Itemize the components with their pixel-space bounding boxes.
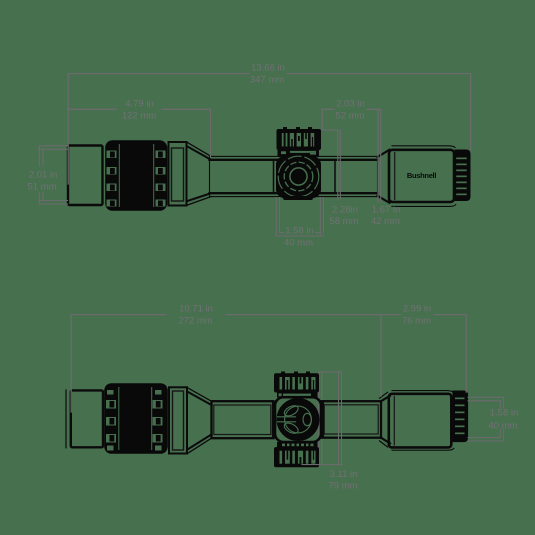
objective knurled end ring (top view) <box>455 150 470 201</box>
ocular housing (bottom view) <box>65 390 67 448</box>
svg-text:1.58 in: 1.58 in <box>490 408 519 419</box>
svg-text:79 mm: 79 mm <box>328 481 357 492</box>
elevation turret knurl (bottom view) <box>281 372 310 376</box>
dim 1.58 in double bracket under turret <box>276 198 323 237</box>
svg-text:347 mm: 347 mm <box>250 75 284 86</box>
dim 2.99 in <box>381 315 466 392</box>
dim 2.01 in double bracket <box>39 146 68 204</box>
lower turret band <box>277 442 318 448</box>
dim 3.11 in left pair (under drawing) <box>319 372 322 465</box>
dim 4.79 in <box>68 109 211 157</box>
taper to tube (bottom view) <box>189 388 212 401</box>
dim 13.66 in <box>68 74 471 184</box>
turret saddle square (bottom view) <box>275 397 321 442</box>
svg-text:272 mm: 272 mm <box>178 316 212 327</box>
dim 1.58 in double bracket (right) <box>468 397 504 441</box>
svg-text:1.67 in: 1.67 in <box>372 205 401 216</box>
plain ring (bottom view) <box>169 387 187 453</box>
svg-text:3.11 in: 3.11 in <box>330 469 358 480</box>
elevation turret cap (top view) <box>283 127 312 131</box>
zoom ring knurl (top view) <box>106 141 167 210</box>
plain ring (top view) <box>169 142 187 206</box>
svg-text:13.66 in: 13.66 in <box>251 63 285 74</box>
cap knurl slots <box>282 133 314 147</box>
svg-text:Bushnell: Bushnell <box>407 171 436 180</box>
zoom ring knurl (bottom view) <box>105 384 167 453</box>
svg-text:2.03 in: 2.03 in <box>336 99 365 110</box>
tube joint lines <box>273 161 275 193</box>
svg-text:2.28in: 2.28in <box>332 205 358 216</box>
objective shoulder (top view) <box>378 150 390 157</box>
svg-text:51 mm: 51 mm <box>27 182 56 193</box>
dim 10.71 in <box>71 315 381 412</box>
turret saddle square (side view) <box>277 157 321 198</box>
objective bell (top view) <box>392 146 455 148</box>
svg-text:76 mm: 76 mm <box>402 316 431 327</box>
engraved circles on saddle <box>278 156 319 197</box>
taper to tube (top view) <box>188 143 212 157</box>
knurl tooth dots <box>110 152 163 207</box>
dim 2.03 in <box>322 109 380 130</box>
svg-text:122 mm: 122 mm <box>122 111 156 122</box>
svg-text:4.79 in: 4.79 in <box>125 99 154 110</box>
saddle side walls <box>273 403 323 436</box>
objective bell (bottom view) <box>392 391 453 393</box>
svg-text:40 mm: 40 mm <box>284 238 313 249</box>
main tube left box (bottom view) <box>212 401 274 438</box>
turret cap top face circle <box>277 399 319 441</box>
svg-text:1.58 in: 1.58 in <box>285 226 314 237</box>
svg-text:40 mm: 40 mm <box>488 421 517 432</box>
objective shoulder (bottom view) <box>380 392 388 398</box>
svg-text:58 mm: 58 mm <box>329 216 358 227</box>
knurl notches right column <box>153 144 165 207</box>
svg-text:2.99 in: 2.99 in <box>403 304 432 315</box>
dim 1.67 in leader <box>378 109 381 202</box>
turret base band <box>278 150 320 157</box>
upper turret band <box>277 392 318 398</box>
ocular housing (top view) <box>68 146 103 206</box>
svg-text:42 mm: 42 mm <box>371 216 400 227</box>
svg-text:52 mm: 52 mm <box>335 111 364 122</box>
main tube (top view) <box>210 156 378 196</box>
engraved grip pattern <box>278 404 312 436</box>
saddle pedestal bump (top view) <box>283 196 313 200</box>
dim 3.11 in right pair and base <box>302 372 342 465</box>
knurl notches left column <box>107 144 120 207</box>
windage turret knurl (bottom view) <box>275 448 319 467</box>
dim 2.28 in leader <box>322 130 340 199</box>
main tube right box (bottom view) <box>322 401 381 438</box>
svg-text:10.71 in: 10.71 in <box>179 304 213 315</box>
objective knurled end ring (bottom view) <box>453 391 468 442</box>
svg-text:2.01 in: 2.01 in <box>29 170 58 181</box>
